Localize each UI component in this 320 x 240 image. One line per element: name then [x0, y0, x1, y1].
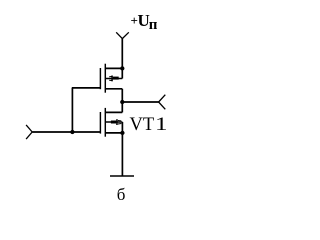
ground bar (common terminal)	[110, 175, 134, 177]
arrow barbs (open arrowhead pointing right)	[118, 120, 121, 122]
channel bar	[104, 108, 106, 137]
source stub (bottom)	[105, 132, 122, 134]
wire: output vertical (drain VT2 to drain VT1)	[121, 89, 123, 113]
wire: body-to-source of upper transistor	[121, 68, 123, 78]
source stub (top)	[105, 67, 122, 69]
wire: ground vertical	[121, 133, 123, 176]
drain stub (bottom)	[105, 88, 122, 90]
label subscript п	[149, 17, 158, 34]
node: source junction dot of VT1	[120, 131, 124, 135]
gate bar	[99, 68, 101, 89]
wire: body-to-source of lower transistor	[121, 122, 123, 133]
input terminal fork	[26, 125, 32, 139]
arrow tall bar	[116, 119, 118, 125]
wire: supply vertical	[121, 38, 123, 68]
wire: branch vertical (input to upper gate)	[71, 88, 73, 132]
gate bar	[99, 112, 101, 134]
arrow thick tail	[111, 121, 116, 124]
wire: gate lead of upper transistor	[72, 87, 101, 89]
transistor VT1 (n-channel MOSFET, lower)	[100, 108, 122, 137]
arrow barbs (open arrowhead pointing left)	[109, 75, 112, 77]
body stub (middle) with arrow	[105, 78, 122, 80]
label U (supply voltage)	[138, 11, 150, 31]
arrow tall bar	[111, 76, 113, 82]
supply terminal fork	[116, 32, 129, 38]
wire: input horizontal (to gate of VT1)	[32, 131, 100, 133]
label б (figure sublabel)	[117, 185, 126, 205]
transistor VT2 (p-channel MOSFET, upper)	[100, 64, 122, 93]
channel bar	[104, 64, 106, 93]
label VT1	[130, 115, 164, 136]
arrow thick tail	[113, 77, 119, 80]
output terminal fork	[159, 95, 166, 110]
label + (supply polarity)	[131, 13, 138, 29]
node: input junction dot	[70, 130, 74, 134]
node: output junction dot	[120, 100, 124, 104]
body stub (middle) with arrow	[105, 121, 122, 123]
wire: output horizontal	[122, 101, 159, 103]
node: supply junction dot	[120, 66, 124, 70]
drain stub (top)	[105, 111, 122, 113]
